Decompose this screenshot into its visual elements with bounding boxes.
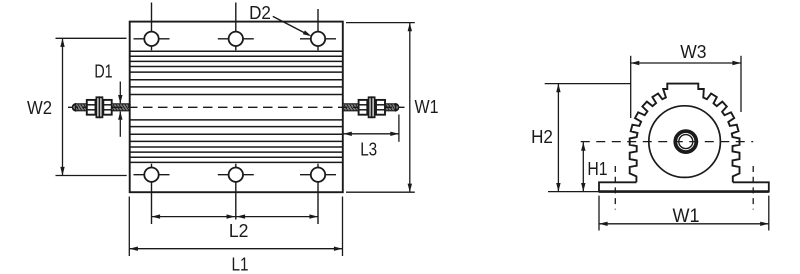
terminal stud left	[73, 97, 131, 117]
svg-text:W2: W2	[27, 98, 52, 118]
svg-text:H1: H1	[587, 159, 607, 179]
mounting hole bottom 1	[134, 164, 170, 224]
centerline (side view)	[576, 141, 754, 143]
mounting hole centerline left (side view)	[614, 166, 616, 210]
mounting base plate (side view)	[599, 182, 769, 191]
dimension D2 leader	[249, 3, 311, 36]
svg-text:W3: W3	[680, 42, 706, 62]
svg-text:L1: L1	[232, 254, 249, 274]
terminal stud right	[343, 97, 399, 117]
svg-text:D1: D1	[94, 61, 112, 81]
dimension H2	[531, 84, 631, 192]
centerline (front view)	[68, 106, 405, 108]
center hole rings	[675, 131, 696, 152]
mounting hole top 2	[218, 3, 254, 51]
svg-text:H2: H2	[531, 127, 553, 147]
heatsink cross-section profile (side view)	[630, 84, 740, 183]
dimension L3	[343, 115, 399, 160]
dimension L1	[129, 197, 342, 274]
dimension H1	[581, 142, 608, 192]
svg-text:W1: W1	[673, 205, 700, 227]
heatsink fins (front view)	[130, 51, 343, 162]
dimension D1	[94, 61, 122, 137]
core circle (side view)	[649, 106, 721, 178]
mounting hole centerline right (side view)	[752, 166, 754, 210]
svg-text:L3: L3	[360, 140, 377, 160]
resistor body (front view)	[130, 22, 343, 193]
dimension W2	[27, 38, 127, 175]
mounting hole top 1	[134, 3, 170, 51]
dimension W1 side view	[599, 196, 769, 231]
svg-text:W1: W1	[415, 97, 439, 117]
svg-text:D2: D2	[249, 3, 271, 23]
svg-text:L2: L2	[229, 221, 249, 241]
mounting hole bottom 3	[300, 164, 336, 224]
mounting hole bottom 2	[218, 164, 254, 220]
dimension W1 front view	[346, 23, 439, 193]
mounting hole top 3	[300, 9, 336, 50]
dimension L2	[152, 214, 319, 241]
dimension W3	[631, 42, 741, 118]
